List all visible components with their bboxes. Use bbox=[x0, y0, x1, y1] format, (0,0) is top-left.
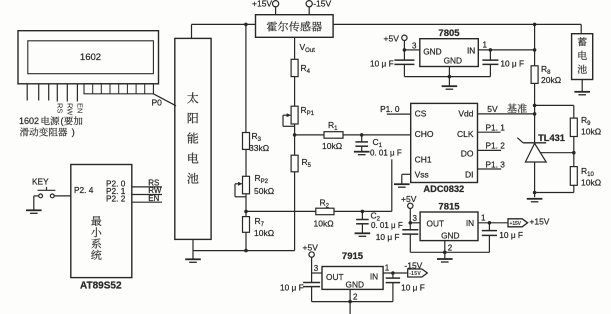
P0 bus connector bbox=[84, 84, 153, 94]
node junction RP1/R1/R5 bbox=[293, 133, 297, 137]
resistor R2 bbox=[316, 208, 334, 215]
potentiometer RP2 bbox=[243, 176, 250, 194]
ground (7805) bbox=[448, 77, 450, 86]
svg-text:OUT: OUT bbox=[427, 219, 445, 229]
-15V terminal bbox=[306, 1, 312, 7]
wire R3 to RP2 bbox=[245, 149, 247, 176]
wire CLK P1.1 bbox=[478, 131, 501, 133]
svg-text:GND: GND bbox=[346, 280, 364, 290]
svg-text:KEY: KEY bbox=[32, 177, 49, 187]
wire R2 to CH1 riser bbox=[334, 210, 392, 212]
svg-text:-15V: -15V bbox=[404, 260, 422, 270]
svg-text:P1. 1: P1. 1 bbox=[486, 123, 506, 133]
svg-text:P0: P0 bbox=[152, 98, 163, 108]
wire 7915 bottom loop bbox=[312, 301, 393, 303]
wire divider column top bbox=[245, 24, 247, 132]
node junction C1 bbox=[360, 133, 364, 137]
+15V terminal bbox=[273, 1, 279, 7]
wire battery bottom bbox=[581, 80, 583, 92]
label 最小系统 (vertical) bbox=[91, 216, 101, 226]
svg-text:-15V: -15V bbox=[313, 0, 331, 9]
svg-text:+5V: +5V bbox=[303, 243, 319, 253]
capacitor 10uF (7915 right) bbox=[392, 273, 394, 278]
svg-text:(: ( bbox=[61, 116, 64, 126]
capacitor 10uF (7815 left) bbox=[409, 223, 411, 230]
wire ref to TL431 bbox=[540, 152, 574, 154]
capacitor 10uF (7915 left) bbox=[311, 273, 313, 283]
ground (battery) bbox=[574, 91, 590, 93]
wire R10 bottom bbox=[573, 185, 575, 192]
wire R5 to bottom rail bbox=[294, 172, 296, 251]
node junction GND bbox=[448, 75, 452, 79]
wire ground stem (clipped) bbox=[349, 302, 351, 314]
wire GND pin 2 bbox=[444, 241, 446, 253]
net label 基准 bbox=[507, 104, 517, 113]
svg-text:CLK: CLK bbox=[457, 129, 474, 139]
svg-text:2: 2 bbox=[353, 293, 358, 302]
svg-text:3: 3 bbox=[314, 264, 319, 273]
svg-text:EN: EN bbox=[148, 194, 159, 203]
svg-text:RW: RW bbox=[65, 103, 74, 116]
svg-text:1602: 1602 bbox=[80, 52, 101, 63]
svg-text:7915: 7915 bbox=[342, 251, 364, 262]
wire GND pin down bbox=[448, 67, 450, 77]
wire to R9 bbox=[535, 104, 574, 106]
svg-text:CHO: CHO bbox=[415, 129, 434, 139]
node junction bbox=[409, 221, 413, 225]
note: 1602 power note line 2 bbox=[20, 128, 29, 137]
svg-text:20kΩ: 20kΩ bbox=[541, 75, 561, 85]
svg-text:Vdd: Vdd bbox=[458, 108, 473, 118]
node junction R9/R10/ref bbox=[572, 151, 576, 155]
svg-text:7805: 7805 bbox=[438, 28, 460, 39]
wire IN pin right bbox=[478, 222, 508, 224]
svg-text:0. 01 μ F: 0. 01 μ F bbox=[371, 221, 403, 230]
svg-text:+15V: +15V bbox=[510, 221, 522, 227]
capacitor 10uF (7805 right) bbox=[489, 50, 491, 60]
svg-text:+5V: +5V bbox=[384, 33, 400, 43]
wire CH1 riser bbox=[391, 159, 393, 211]
node junction bbox=[348, 300, 352, 304]
RP2 wiper hook bbox=[235, 183, 241, 185]
svg-text:TL431: TL431 bbox=[538, 133, 565, 143]
resistor R7 bbox=[243, 217, 250, 233]
capacitor C1 bbox=[361, 135, 363, 142]
svg-text:10 μ F: 10 μ F bbox=[401, 282, 425, 292]
svg-text:CH1: CH1 bbox=[415, 154, 432, 164]
svg-text:10kΩ: 10kΩ bbox=[581, 127, 601, 137]
resistor R1 bbox=[324, 132, 343, 139]
ground (Vss) bbox=[394, 183, 410, 185]
ground (7815) bbox=[444, 252, 446, 258]
svg-text:P2. 4: P2. 4 bbox=[74, 185, 94, 195]
+5V terminal (7815) bbox=[408, 203, 413, 208]
node junction bbox=[489, 48, 493, 52]
svg-text:33kΩ: 33kΩ bbox=[249, 143, 269, 153]
node junction bbox=[443, 251, 447, 255]
svg-text:50kΩ: 50kΩ bbox=[254, 186, 274, 196]
resistor R9 bbox=[570, 118, 577, 136]
svg-text:P1. 0: P1. 0 bbox=[380, 104, 400, 114]
node junction R9 branch bbox=[533, 104, 537, 108]
node junction bbox=[403, 48, 407, 52]
wire hall left to solar bbox=[192, 23, 256, 25]
wire GND pin 2 bbox=[349, 289, 351, 301]
wire IN pin right bbox=[478, 49, 534, 51]
node junction C2 bbox=[361, 210, 365, 214]
capacitor 10uF (7805 left) bbox=[403, 50, 405, 60]
ADC U ADC0832 box bbox=[411, 103, 478, 182]
wire pin3 bbox=[312, 272, 322, 274]
svg-text:ADC0832: ADC0832 bbox=[423, 184, 464, 194]
resistor R8 bbox=[531, 66, 538, 84]
svg-text:DO: DO bbox=[461, 148, 474, 158]
svg-text:): ) bbox=[72, 127, 75, 137]
wire TL431 anode bbox=[534, 162, 536, 197]
svg-text:10kΩ: 10kΩ bbox=[314, 219, 334, 229]
wire +5V to pin3 bbox=[404, 49, 419, 51]
node junction hall/divider bbox=[244, 23, 248, 27]
regulator U 7915 box bbox=[322, 267, 383, 290]
regulator U 7805 box bbox=[420, 39, 479, 67]
wire solar bottom to ground bbox=[192, 239, 194, 258]
svg-text:CS: CS bbox=[415, 108, 427, 118]
svg-text:AT89S52: AT89S52 bbox=[80, 280, 122, 291]
wire hall Vout bbox=[294, 37, 296, 59]
+5V terminal (7805) bbox=[402, 35, 407, 40]
svg-text:2: 2 bbox=[448, 243, 453, 252]
wire pin3 bbox=[410, 222, 420, 224]
wire junction to R1 bbox=[295, 134, 324, 136]
wire RP2 to R7 bbox=[245, 194, 247, 217]
node junction R7/rail bbox=[244, 249, 248, 253]
LCD pins bbox=[26, 84, 28, 101]
wire RP2 tap to R2 bbox=[246, 210, 316, 212]
capacitor C2 bbox=[361, 211, 363, 219]
wire R8 column bbox=[534, 24, 536, 65]
wire RP1 to junction bbox=[294, 124, 296, 155]
svg-text:10 μ F: 10 μ F bbox=[500, 59, 524, 69]
wire R9 to junction bbox=[573, 137, 575, 167]
svg-text:OUT: OUT bbox=[326, 272, 344, 282]
svg-text:-15V: -15V bbox=[409, 271, 421, 277]
node junction anode/R10 bbox=[533, 191, 537, 195]
hall sensor box 霍尔传感器 bbox=[256, 15, 334, 38]
LCD module 1602 inner box bbox=[28, 41, 154, 74]
svg-text:10 μ F: 10 μ F bbox=[280, 282, 304, 292]
wire P2.1 to RW bbox=[132, 194, 162, 196]
ground (solar) bbox=[185, 258, 201, 260]
svg-text:1: 1 bbox=[483, 41, 488, 50]
wire R7 to bottom rail bbox=[245, 232, 247, 250]
-15V output pennant bbox=[408, 269, 428, 277]
bottom rail (left analog) bbox=[193, 250, 295, 252]
node junction bbox=[391, 271, 395, 275]
svg-text:GND: GND bbox=[444, 56, 462, 66]
svg-text:+15V: +15V bbox=[529, 216, 549, 226]
ground (key) bbox=[26, 209, 42, 211]
solar cell box 太阳能电池 bbox=[175, 38, 211, 239]
LCD module 1602 outer box bbox=[18, 31, 159, 84]
wire 7815 bottom loop bbox=[410, 251, 489, 253]
wire solar top bbox=[191, 24, 193, 38]
svg-text:EN: EN bbox=[75, 103, 84, 113]
svg-text:GND: GND bbox=[441, 231, 459, 241]
+15V output pennant bbox=[508, 219, 528, 227]
MCU AT89S52 minimum-system box bbox=[71, 165, 132, 278]
svg-text:10 μ F: 10 μ F bbox=[499, 230, 523, 240]
svg-text:10 μ F: 10 μ F bbox=[370, 59, 394, 69]
wire 7805 bottom loop bbox=[404, 76, 490, 78]
wire R1 to CH0 bbox=[343, 134, 411, 136]
ground (TL431) bbox=[527, 198, 543, 200]
capacitor 10uF (7815 right) bbox=[488, 223, 490, 231]
svg-text:P1. 3: P1. 3 bbox=[486, 159, 506, 169]
svg-text:3: 3 bbox=[412, 41, 417, 50]
svg-text:RS: RS bbox=[55, 103, 64, 113]
node junction rail/R8 bbox=[533, 23, 537, 27]
svg-text:Vss: Vss bbox=[415, 170, 429, 180]
svg-text:1: 1 bbox=[385, 264, 390, 273]
svg-text:P1. 2: P1. 2 bbox=[486, 141, 506, 151]
svg-text:10kΩ: 10kΩ bbox=[254, 228, 274, 238]
RP1 wiper hook bbox=[283, 114, 289, 116]
svg-text:IN: IN bbox=[466, 218, 474, 228]
wire key to ground bbox=[34, 195, 39, 197]
svg-text:1602: 1602 bbox=[19, 116, 39, 126]
ground (C1) bbox=[354, 151, 370, 153]
wire Vdd to reference rail bbox=[478, 113, 535, 115]
label 太阳能电池 (vertical) bbox=[187, 92, 198, 103]
wire P2.2 to EN bbox=[132, 201, 162, 203]
svg-text:5V: 5V bbox=[487, 104, 498, 114]
svg-text:1: 1 bbox=[481, 213, 486, 222]
svg-text:10kΩ: 10kΩ bbox=[581, 178, 601, 188]
node junction RP2/R7/R2 bbox=[244, 210, 248, 214]
wire P2.0 to RS bbox=[132, 186, 162, 188]
wire battery top bbox=[580, 24, 582, 33]
svg-text:IN: IN bbox=[370, 272, 378, 282]
svg-text:IN: IN bbox=[467, 46, 475, 56]
wire P0 bus diagonal bbox=[153, 94, 176, 106]
node junction 7805 IN bbox=[533, 48, 537, 52]
wire IN pin right bbox=[383, 272, 408, 274]
node junction bbox=[488, 221, 492, 225]
resistor R10 bbox=[570, 167, 577, 186]
wire top rail bbox=[333, 23, 581, 25]
svg-text:10kΩ: 10kΩ bbox=[322, 141, 342, 151]
node junction Vdd rail bbox=[533, 112, 537, 116]
svg-text:DI: DI bbox=[465, 170, 474, 180]
wire Vss to ground bbox=[402, 173, 411, 175]
wire DO P1.2 bbox=[478, 149, 502, 151]
potentiometer RP1 bbox=[291, 106, 298, 124]
battery box 蓄电池 bbox=[572, 34, 593, 80]
svg-text:P2. 2: P2. 2 bbox=[106, 194, 126, 204]
svg-text:0. 01 μ F: 0. 01 μ F bbox=[370, 149, 402, 158]
wire P1.0 to CS bbox=[387, 113, 411, 115]
+5V terminal (7915) bbox=[309, 252, 314, 257]
svg-text:3: 3 bbox=[413, 214, 418, 223]
svg-text:+15V: +15V bbox=[252, 0, 272, 9]
wire DI P1.3 bbox=[478, 168, 502, 170]
wire R4 to RP1 bbox=[294, 77, 296, 107]
svg-text:+5V: +5V bbox=[401, 194, 417, 204]
resistor R3 bbox=[243, 133, 250, 150]
resistor R4 bbox=[291, 59, 298, 76]
svg-text:GND: GND bbox=[423, 47, 441, 57]
wire key to P2.4 bbox=[54, 195, 71, 197]
wire R8 to TL431 bbox=[534, 83, 536, 142]
svg-text:7815: 7815 bbox=[438, 201, 460, 212]
regulator U 7815 box bbox=[420, 212, 478, 241]
resistor R5 bbox=[291, 155, 298, 172]
svg-text:10 μ F: 10 μ F bbox=[376, 232, 400, 242]
ground (C2) bbox=[355, 232, 371, 234]
